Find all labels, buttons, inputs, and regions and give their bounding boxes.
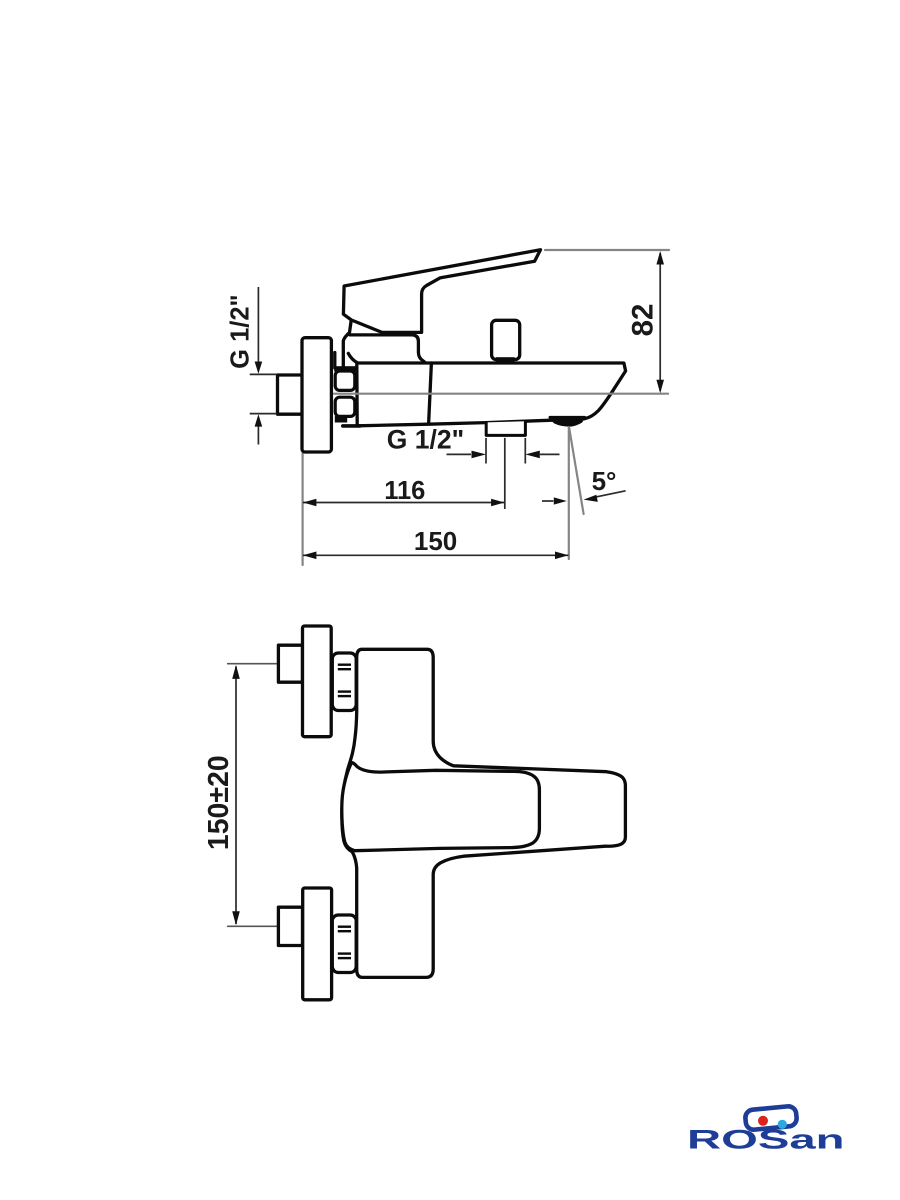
shower outlet stub bbox=[486, 421, 525, 435]
arrow G1/2 up bbox=[255, 414, 263, 426]
extension line from handle tip (gray) bbox=[545, 249, 669, 251]
116 dimension line bbox=[303, 502, 505, 504]
bottom wall flange bbox=[303, 888, 332, 1000]
svg-text:ROSan: ROSan bbox=[687, 1124, 845, 1154]
water stream 5 deg slanted line (gray) bbox=[569, 428, 583, 514]
150+-20 dimension bbox=[235, 667, 237, 925]
wall flange extension line (gray) bbox=[302, 453, 304, 565]
arrow 150 right bbox=[555, 552, 569, 560]
G 1/2 left: upper extension line bbox=[250, 373, 277, 375]
body column with lever silhouette bbox=[342, 649, 626, 977]
nut upper stem left edge bbox=[333, 353, 336, 369]
svg-text:G 1/2": G 1/2" bbox=[226, 294, 254, 368]
svg-text:5°: 5° bbox=[592, 466, 617, 496]
arrow 116 right bbox=[491, 499, 505, 507]
bottom pipe ext line (gray) bbox=[228, 925, 278, 927]
arrow G1/2 down bbox=[255, 362, 263, 374]
outlet G 1/2 dim left tail bbox=[447, 453, 472, 455]
cartridge cap bbox=[350, 335, 425, 362]
G 1/2 left: lower extension line bbox=[250, 413, 277, 415]
aerator dome (black) bbox=[551, 420, 583, 427]
bottom nut thread bars bbox=[338, 926, 351, 960]
arrow 82 bottom bbox=[656, 380, 664, 394]
top pipe ext line (gray) bbox=[228, 663, 278, 665]
nut lump 2 bbox=[335, 397, 355, 416]
arrow 150+-20 top bbox=[232, 665, 240, 679]
diverter foot (black) bbox=[496, 357, 515, 362]
arrow 150 left bbox=[303, 552, 317, 560]
svg-text:116: 116 bbox=[384, 477, 425, 505]
svg-text:82: 82 bbox=[627, 304, 660, 337]
valve neck left edge bbox=[343, 320, 351, 368]
5 deg right arrow tail bbox=[593, 491, 626, 498]
arrow 150+-20 bottom bbox=[232, 911, 240, 925]
top connection nut bbox=[332, 653, 356, 711]
centerline (gray) bbox=[334, 393, 668, 395]
outlet center ext line bbox=[504, 438, 506, 509]
aerator top line bbox=[550, 416, 585, 419]
body top-left fillet arc bbox=[348, 353, 357, 362]
top pipe stub bbox=[278, 645, 302, 682]
outlet ext line right bbox=[524, 438, 526, 464]
top wall flange bbox=[303, 626, 332, 737]
handle lever bbox=[343, 250, 540, 333]
logo face box bbox=[745, 1106, 798, 1131]
dim line 150+-20 bbox=[235, 667, 237, 925]
arrow outlet left (points right) bbox=[472, 451, 487, 459]
body front face line bbox=[429, 363, 432, 424]
arrow 82 top bbox=[656, 251, 664, 265]
wall flange bbox=[302, 338, 331, 452]
150 dimension line bbox=[303, 554, 569, 556]
water stream vertical line (gray) bbox=[568, 427, 570, 559]
nut lump 1 bbox=[335, 371, 355, 390]
bottom connection nut bbox=[332, 915, 356, 973]
arrow 5deg left (points right) bbox=[554, 497, 567, 504]
top nut thread bars bbox=[338, 664, 351, 698]
G 1/2 left: dimension line upper bbox=[257, 287, 259, 362]
body and spout bbox=[357, 363, 626, 426]
svg-text:150: 150 bbox=[414, 526, 457, 556]
outlet G 1/2 dim right tail bbox=[540, 453, 560, 455]
logo cyan dot bbox=[778, 1120, 787, 1129]
pipe stub left bbox=[278, 375, 303, 414]
5 deg left arrow tail bbox=[542, 500, 554, 502]
outlet ext line left bbox=[485, 438, 487, 464]
nut bottom band bbox=[335, 416, 347, 423]
bottom pipe stub bbox=[278, 907, 302, 945]
diverter knob bbox=[492, 320, 520, 359]
arrow 5deg right (points left) bbox=[584, 495, 598, 502]
82 dimension line bbox=[659, 253, 661, 391]
arrow 116 left bbox=[303, 499, 317, 507]
svg-text:150±20: 150±20 bbox=[203, 755, 235, 850]
nut top band bbox=[334, 366, 356, 371]
body bottom lip bbox=[343, 424, 360, 428]
G 1/2 left: dimension line lower bbox=[257, 426, 259, 445]
svg-text:G 1/2": G 1/2" bbox=[387, 425, 464, 455]
lever top surface bbox=[342, 763, 540, 851]
arrow outlet right (points left) bbox=[525, 451, 540, 459]
logo red dot bbox=[758, 1116, 768, 1126]
